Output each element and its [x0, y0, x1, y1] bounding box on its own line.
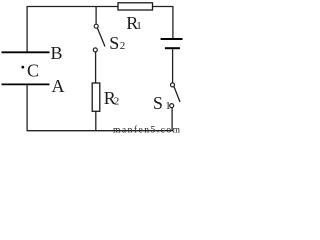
- svg-text:S: S: [109, 33, 119, 53]
- switch S2 blade: [97, 28, 105, 47]
- svg-text:A: A: [52, 76, 65, 96]
- switch S2 top contact: [94, 24, 98, 28]
- svg-text:manfen5.com: manfen5.com: [113, 124, 181, 135]
- resistor R2 box: [92, 83, 100, 111]
- wire middle branch top (96,6.5)-(96,24): [95, 7, 97, 25]
- wire right vertical top (173,6.5)-(173,39): [172, 7, 174, 40]
- wire battery to S1 (172.5,48.5)-(172.5,82.5): [172, 49, 174, 82]
- switch S1 bottom contact: [170, 104, 174, 108]
- svg-text:2: 2: [120, 40, 126, 52]
- wire left vertical bottom (27,84)-(27,130.7): [26, 84, 28, 130]
- switch S2 bottom contact: [93, 48, 97, 52]
- switch S1 blade: [174, 87, 180, 102]
- capacitor plate B (top plate): [2, 51, 50, 53]
- wire S2 to R2 (95.5,52)-(95.5,83): [95, 52, 97, 83]
- resistor R1 box: [118, 3, 153, 10]
- battery long plate: [161, 38, 183, 40]
- svg-text:1: 1: [136, 20, 142, 32]
- svg-text:B: B: [51, 43, 63, 63]
- wire S1 to bottom (172,107.6)-(172,130.7): [171, 108, 173, 131]
- switch S1 top contact: [171, 83, 175, 87]
- svg-text:1: 1: [165, 100, 171, 112]
- capacitor plate A (bottom plate): [2, 83, 50, 85]
- wire top (27,6.5)-(173,6.5): [27, 6, 174, 8]
- svg-text:C: C: [27, 61, 39, 81]
- battery short plate: [165, 47, 180, 49]
- wire R2 to bottom (96,111.3)-(96,130.7): [95, 111, 97, 130]
- svg-text:S: S: [153, 93, 163, 113]
- wire left vertical top (27,6.5)-(27,52.5): [26, 7, 28, 53]
- wire bottom (27,130.7)-(172.3,130.7): [27, 130, 173, 132]
- svg-text:2: 2: [114, 96, 120, 108]
- node C dot: [21, 66, 24, 69]
